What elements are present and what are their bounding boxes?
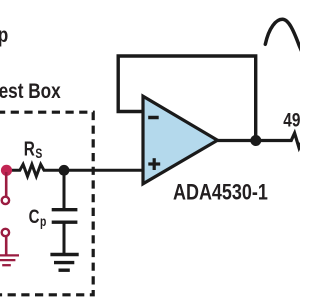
- test box dashed border: [0, 112, 93, 295]
- open terminal circle 2: [2, 229, 9, 236]
- resistor RS label: [24, 137, 35, 159]
- open terminal circle 1: [2, 197, 9, 204]
- svg-text:S: S: [35, 146, 42, 162]
- waveform output icon: [265, 19, 302, 53]
- ground (black): [50, 255, 78, 271]
- label p (cut-off heading word): [0, 23, 8, 47]
- svg-text:R: R: [24, 137, 35, 159]
- op-amp minus symbol: [148, 116, 159, 120]
- output node dot: [250, 135, 261, 146]
- wire: node A down to capacitor: [63, 170, 66, 209]
- wire: node A to op-amp +input (with resistor RS): [7, 164, 144, 176]
- feedback wire: [118, 56, 256, 141]
- svg-text:p: p: [0, 23, 8, 47]
- label Test Box: [0, 79, 61, 103]
- svg-text:49.9: 49.9: [283, 109, 300, 131]
- output wire with 49.9 ohm resistor start: [218, 133, 303, 148]
- svg-text:C: C: [29, 205, 40, 227]
- red wire: dot to terminal circle 1: [5, 172, 8, 196]
- source terminal dot (red): [1, 165, 12, 176]
- svg-text:Test Box: Test Box: [0, 79, 61, 103]
- junction node A dot: [59, 165, 70, 176]
- red ground: [0, 255, 19, 265]
- wire: capacitor to ground: [63, 222, 66, 254]
- capacitor Cp label: [29, 205, 40, 227]
- svg-text:p: p: [40, 214, 46, 230]
- resistor 49.9 label: [283, 109, 313, 131]
- capacitor Cp: [52, 208, 78, 211]
- op-amp U1: [143, 96, 218, 184]
- op-amp plus symbol: [148, 158, 160, 170]
- red wire: terminal circle 2 to ground: [5, 236, 8, 255]
- op-amp label ADA4530-1: [173, 181, 268, 205]
- svg-text:ADA4530-1: ADA4530-1: [173, 181, 268, 205]
